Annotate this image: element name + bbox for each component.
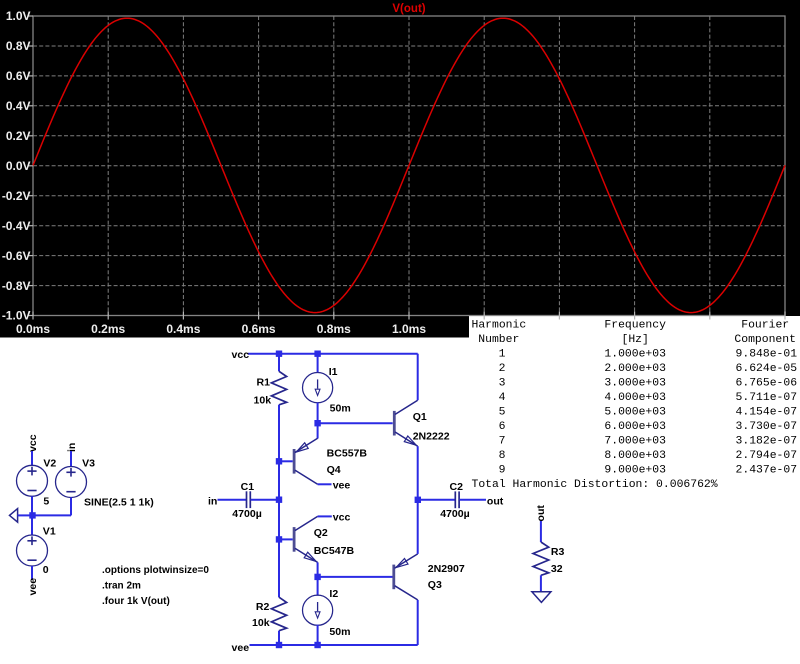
wire ground to node <box>18 514 33 516</box>
capacitor C2 <box>455 491 459 508</box>
harmonic row 7 <box>499 436 797 448</box>
wire V3 to ground node <box>33 514 72 516</box>
svg-text:5.000e+03: 5.000e+03 <box>604 407 666 419</box>
ground symbol left <box>10 509 18 522</box>
harmonic row 1 <box>499 349 798 361</box>
svg-text:5: 5 <box>499 407 506 419</box>
wire Q1 base <box>318 422 393 424</box>
voltage source V3 <box>56 467 87 498</box>
svg-text:9.000e+03: 9.000e+03 <box>604 465 666 477</box>
harmonic row 9 <box>499 465 797 477</box>
svg-text:0.2ms: 0.2ms <box>91 322 125 336</box>
svg-text:1: 1 <box>499 349 506 361</box>
resistor R1 <box>271 371 286 405</box>
svg-text:1.0V: 1.0V <box>6 9 31 23</box>
svg-text:9.848e-01: 9.848e-01 <box>736 349 798 361</box>
svg-text:2N2907: 2N2907 <box>428 563 465 575</box>
svg-text:.options plotwinsize=0: .options plotwinsize=0 <box>102 565 209 576</box>
svg-text:Frequency: Frequency <box>604 320 666 332</box>
svg-text:2N2222: 2N2222 <box>413 431 450 443</box>
wire V2 bottom to V1 top <box>31 496 33 535</box>
wire node to I2 <box>317 577 319 596</box>
node vee-R2 <box>276 642 282 648</box>
wire Q3 base <box>318 576 393 578</box>
svg-text:4: 4 <box>499 392 506 404</box>
svg-text:vee: vee <box>232 642 250 654</box>
wire C2 to out label <box>460 499 486 501</box>
svg-text:32: 32 <box>551 563 563 575</box>
voltage source V2 <box>17 465 48 496</box>
svg-text:.tran 2m: .tran 2m <box>102 581 141 592</box>
svg-text:10k: 10k <box>252 617 270 629</box>
svg-text:in: in <box>208 496 217 508</box>
node gnd junction <box>29 512 35 518</box>
wire vee rail <box>250 644 418 646</box>
wire Q1 collector to vcc <box>417 354 419 401</box>
svg-text:-0.2V: -0.2V <box>2 189 31 203</box>
svg-text:6.624e-05: 6.624e-05 <box>736 363 798 375</box>
wire Q2 emitter down <box>317 562 319 577</box>
svg-text:Fourier: Fourier <box>741 320 789 332</box>
x axis time labels <box>16 322 426 336</box>
wire Q4 base <box>279 460 293 462</box>
svg-text:vcc: vcc <box>27 434 39 452</box>
wire R3 to ground <box>540 575 542 591</box>
wire I1 to node <box>317 403 319 424</box>
svg-text:3.000e+03: 3.000e+03 <box>604 378 666 390</box>
wire vcc to R1 <box>278 354 280 372</box>
harmonic row 6 <box>499 421 797 433</box>
svg-text:2.000e+03: 2.000e+03 <box>604 363 666 375</box>
wire vcc to I1 <box>317 354 319 373</box>
resistor R3 <box>533 542 549 575</box>
svg-text:2.437e-07: 2.437e-07 <box>736 465 798 477</box>
svg-text:vcc: vcc <box>333 511 351 523</box>
transistor Q3 2N2907 <box>394 554 418 600</box>
capacitor C1 <box>247 491 251 508</box>
current source I2 <box>303 595 333 625</box>
svg-text:R2: R2 <box>256 601 270 613</box>
node vee-I2 <box>314 642 320 648</box>
svg-text:7: 7 <box>499 436 506 448</box>
svg-text:1.000e+03: 1.000e+03 <box>604 349 666 361</box>
svg-text:R1: R1 <box>257 376 271 388</box>
svg-text:Q2: Q2 <box>314 527 328 539</box>
svg-text:I1: I1 <box>329 366 338 378</box>
svg-text:0.0ms: 0.0ms <box>16 322 50 336</box>
svg-text:-1.0V: -1.0V <box>2 309 31 323</box>
wire I2 to vee <box>317 625 319 645</box>
svg-text:8.000e+03: 8.000e+03 <box>604 450 666 462</box>
svg-text:.four 1k V(out): .four 1k V(out) <box>102 596 170 607</box>
wire R1 to R2 column <box>278 405 280 597</box>
svg-text:V3: V3 <box>82 458 95 470</box>
svg-text:0.2V: 0.2V <box>6 129 31 143</box>
svg-text:1.0ms: 1.0ms <box>392 322 426 336</box>
wire Q4 collector to vee label <box>318 483 332 485</box>
svg-text:vcc: vcc <box>232 349 250 361</box>
svg-text:3.730e-07: 3.730e-07 <box>736 421 798 433</box>
svg-text:9: 9 <box>499 465 506 477</box>
wire in to C1 <box>218 499 247 501</box>
svg-text:C1: C1 <box>241 481 255 493</box>
wire Q2 base <box>279 538 293 540</box>
svg-text:50m: 50m <box>330 403 351 415</box>
svg-text:-0.4V: -0.4V <box>2 219 31 233</box>
svg-text:Component: Component <box>734 334 796 346</box>
node I1-Q1 base node <box>314 420 320 426</box>
wire out to R3 <box>540 521 542 542</box>
svg-text:0.4V: 0.4V <box>6 99 31 113</box>
resistor R2 <box>271 597 286 631</box>
transistor Q2 BC547B <box>294 516 318 562</box>
svg-text:7.000e+03: 7.000e+03 <box>604 436 666 448</box>
svg-text:0: 0 <box>43 564 49 576</box>
svg-text:10k: 10k <box>254 394 272 406</box>
svg-text:out: out <box>535 505 547 522</box>
harmonic row 5 <box>499 407 797 419</box>
wire Q4 emitter pin <box>317 423 319 438</box>
svg-text:50m: 50m <box>329 626 350 638</box>
svg-text:4.154e-07: 4.154e-07 <box>736 407 798 419</box>
svg-text:5.711e-07: 5.711e-07 <box>736 392 798 404</box>
axis tick marks <box>29 16 786 320</box>
node output node <box>415 497 421 503</box>
wire V3 top pin <box>70 451 72 467</box>
svg-text:[Hz]: [Hz] <box>622 334 649 346</box>
svg-text:Number: Number <box>478 334 519 346</box>
voltage source V1 <box>17 535 48 566</box>
svg-text:BC547B: BC547B <box>314 545 355 557</box>
harmonic row 2 <box>499 363 798 375</box>
harmonic table header row 1 <box>472 320 790 332</box>
wire Q3 emitter to out node <box>417 500 419 554</box>
svg-text:0.8V: 0.8V <box>6 39 31 53</box>
svg-text:BC557B: BC557B <box>327 448 368 460</box>
svg-text:V2: V2 <box>43 458 56 470</box>
svg-text:in: in <box>66 443 78 452</box>
svg-text:2.794e-07: 2.794e-07 <box>736 450 798 462</box>
svg-text:0.8ms: 0.8ms <box>317 322 351 336</box>
current source I1 <box>303 373 333 403</box>
node Q4 base tap <box>276 458 282 464</box>
svg-text:Q1: Q1 <box>413 411 427 423</box>
svg-text:0.0V: 0.0V <box>6 159 31 173</box>
svg-text:6.765e-06: 6.765e-06 <box>736 378 798 390</box>
ground symbol R3 <box>532 592 551 603</box>
waveform trace V(out) red sine <box>33 18 785 312</box>
harmonic row 4 <box>499 392 797 404</box>
svg-text:2: 2 <box>499 363 506 375</box>
svg-text:4.000e+03: 4.000e+03 <box>604 392 666 404</box>
svg-text:V(out): V(out) <box>392 3 425 15</box>
wire V3 bottom down <box>70 498 72 516</box>
svg-text:4700µ: 4700µ <box>440 508 470 520</box>
wire vcc rail <box>248 353 418 355</box>
svg-text:8: 8 <box>499 450 506 462</box>
wire Q3 collector to vee <box>417 600 419 645</box>
transistor Q1 2N2222 <box>394 400 417 446</box>
svg-text:I2: I2 <box>329 588 338 600</box>
svg-text:vee: vee <box>27 578 39 596</box>
svg-text:SINE(2.5 1 1k): SINE(2.5 1 1k) <box>84 496 154 508</box>
svg-text:Total Harmonic Distortion: 0.0: Total Harmonic Distortion: 0.006762% <box>472 479 718 491</box>
wire R2 to vee <box>278 631 280 645</box>
svg-text:6: 6 <box>499 421 506 433</box>
harmonic row 8 <box>499 450 797 462</box>
svg-text:3: 3 <box>499 378 506 390</box>
node Q2 base tap <box>276 536 282 542</box>
svg-text:4700µ: 4700µ <box>232 508 262 520</box>
wire node to C2 <box>418 499 455 501</box>
svg-text:out: out <box>487 495 504 507</box>
plot pane black background <box>0 0 800 316</box>
svg-text:0.4ms: 0.4ms <box>166 322 200 336</box>
harmonic table header row 2 <box>478 334 796 346</box>
time axis label strip black background <box>0 316 469 338</box>
svg-text:R3: R3 <box>551 546 565 558</box>
svg-text:-0.6V: -0.6V <box>2 249 31 263</box>
wire V2 top pin <box>31 451 33 466</box>
wire Q1 emitter to out node <box>417 446 419 500</box>
svg-text:3.182e-07: 3.182e-07 <box>736 436 798 448</box>
svg-text:-0.8V: -0.8V <box>2 279 31 293</box>
node Q2-I2 node <box>314 574 320 580</box>
wire Q2 collector to vcc label <box>318 515 332 517</box>
y axis voltage labels <box>2 9 31 323</box>
harmonic row 3 <box>499 378 798 390</box>
node C1 node <box>276 497 282 503</box>
svg-text:5: 5 <box>43 496 49 508</box>
svg-text:6.000e+03: 6.000e+03 <box>604 421 666 433</box>
node vcc-R1 <box>276 351 282 357</box>
svg-text:vee: vee <box>333 480 351 492</box>
svg-text:Harmonic: Harmonic <box>472 320 527 332</box>
wire C1 to node <box>251 499 279 501</box>
svg-text:0.6ms: 0.6ms <box>242 322 276 336</box>
svg-text:V1: V1 <box>43 525 56 537</box>
svg-text:C2: C2 <box>450 481 464 493</box>
transistor Q4 BC557B <box>294 438 318 484</box>
wire V1 bottom pin <box>31 566 33 580</box>
svg-text:Q3: Q3 <box>428 579 442 591</box>
svg-text:Q4: Q4 <box>327 464 341 476</box>
node vcc-I1 <box>314 351 320 357</box>
plot grid dashed lines <box>33 16 785 316</box>
plot border <box>33 16 785 316</box>
svg-text:0.6V: 0.6V <box>6 69 31 83</box>
